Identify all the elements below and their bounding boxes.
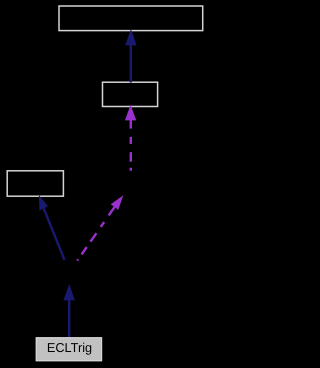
svg-text:ECLTrig: ECLTrig [47,340,92,355]
